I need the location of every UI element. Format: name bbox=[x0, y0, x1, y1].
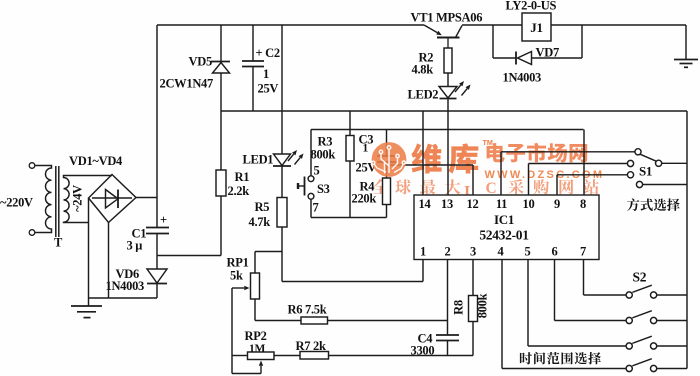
label C1 bbox=[132, 227, 147, 241]
svg-text:LED2: LED2 bbox=[408, 88, 439, 102]
svg-text:S2: S2 bbox=[633, 270, 647, 285]
wire RP2 right to R8 bottom (R7 line) bbox=[274, 355, 473, 357]
svg-text:R5: R5 bbox=[255, 200, 270, 214]
wire wiper bottom horizontal bbox=[232, 373, 261, 375]
svg-text:4.7k: 4.7k bbox=[249, 215, 271, 229]
svg-text:J1: J1 bbox=[530, 20, 542, 35]
svg-text:R3: R3 bbox=[318, 135, 333, 149]
switch S2 pole 2 bbox=[626, 311, 657, 324]
wire R5 branch to RP1 top bbox=[255, 251, 282, 253]
wire pin 5 to S2 row 3 bbox=[528, 345, 626, 347]
wire LED1 to R5 bbox=[281, 166, 283, 198]
label IC1 pin 5 bbox=[525, 245, 531, 259]
svg-text:7: 7 bbox=[580, 245, 586, 259]
wire VD6 to bottom corner bbox=[156, 284, 158, 299]
resistor R3 bbox=[346, 136, 354, 162]
svg-text:1: 1 bbox=[420, 245, 426, 259]
label IC1 pin 14 bbox=[419, 197, 432, 211]
label IC1 pin 1 bbox=[420, 245, 426, 259]
wire rail to VD7 left bbox=[492, 25, 494, 58]
label RP2 value 1M bbox=[249, 343, 265, 355]
label IC1 bbox=[494, 212, 514, 227]
label C4 value 3300 bbox=[411, 344, 435, 358]
svg-text:13: 13 bbox=[441, 197, 453, 211]
wire IC pin 7 lead bbox=[583, 260, 585, 296]
svg-text:4.8k: 4.8k bbox=[412, 63, 434, 77]
label R2 bbox=[419, 51, 434, 65]
wire RP1 wiper down bbox=[231, 288, 233, 374]
switch S2 pole 4 bbox=[626, 359, 657, 372]
wire S2 pole 1 to bus bbox=[657, 294, 687, 296]
svg-text:~220V: ~220V bbox=[0, 196, 33, 210]
label S3 bbox=[317, 182, 330, 196]
wire pin1 horizontal to R5 node bbox=[282, 281, 423, 283]
label R3 value 800k bbox=[311, 148, 336, 162]
label T bbox=[54, 236, 63, 250]
svg-text:R8: R8 bbox=[452, 300, 466, 315]
diode VD6 bbox=[147, 269, 167, 284]
svg-text:S1: S1 bbox=[639, 164, 652, 179]
svg-text:9: 9 bbox=[554, 197, 560, 211]
wire top rail to VD5 bbox=[220, 25, 222, 62]
svg-text:3: 3 bbox=[470, 245, 476, 259]
wire mid rail to R1 bbox=[220, 111, 222, 170]
label VD7 bbox=[536, 46, 559, 60]
label R2 value 4.8k bbox=[412, 63, 434, 77]
switch S2 pole 1 bbox=[626, 285, 657, 298]
wire RP1 bottom lead bbox=[254, 299, 256, 321]
ground (left, bridge/filter return) bbox=[71, 298, 102, 318]
label R4 bbox=[360, 180, 376, 194]
transformer T with primary and secondary windings bbox=[29, 163, 112, 237]
wire R5 down to pin1 node bbox=[281, 227, 283, 282]
label mode-select (fang shi xuan ze) bbox=[627, 198, 680, 211]
label time-range-select (shi jian fan wei xuan ze) bbox=[520, 352, 601, 364]
label IC1 pin 13 bbox=[441, 197, 453, 211]
svg-text:+: + bbox=[160, 213, 167, 227]
svg-text:6: 6 bbox=[552, 245, 558, 259]
capacitor C1 bbox=[146, 228, 169, 234]
resistor R4 bbox=[383, 178, 391, 205]
label RP1 value 5k bbox=[230, 269, 243, 283]
label C3 voltage 25V bbox=[356, 161, 377, 175]
wire top rail right segment bbox=[551, 24, 686, 26]
wire top rail middle segment bbox=[462, 24, 522, 26]
wire S2 pole 4 to bus bbox=[657, 368, 687, 370]
svg-text:1: 1 bbox=[363, 143, 369, 155]
potentiometer RP2 wiper arrow bbox=[259, 361, 263, 374]
label VD6 type 1N4003 bbox=[106, 279, 145, 293]
wire IC pin 3 lead to R8 bbox=[472, 260, 474, 296]
svg-text:+ C2: + C2 bbox=[256, 46, 280, 60]
diode VD7 bbox=[516, 52, 532, 65]
resistor R5 bbox=[277, 198, 287, 228]
svg-text:R7 2k: R7 2k bbox=[296, 339, 326, 353]
LED2 bbox=[439, 81, 471, 99]
label C3 value 1 bbox=[363, 143, 369, 155]
transistor VT1 bbox=[424, 25, 462, 48]
wire C4 to bottom line bbox=[447, 341, 449, 356]
label RP1 bbox=[227, 256, 249, 270]
wire C3/R4 node to pin12 bbox=[387, 164, 474, 166]
resistor R8 bbox=[469, 296, 478, 322]
label ~24V (rotated) bbox=[71, 185, 85, 212]
wire pin 4 to S2 row 4 bbox=[502, 368, 626, 370]
svg-text:3 μ: 3 μ bbox=[127, 239, 143, 253]
svg-text:10: 10 bbox=[523, 197, 535, 211]
potentiometer RP2 body bbox=[248, 352, 275, 360]
ground (right, relay return) bbox=[674, 60, 698, 68]
svg-text:R6 7.5k: R6 7.5k bbox=[288, 303, 327, 317]
potentiometer RP1 wiper arrow bbox=[232, 286, 250, 290]
wire LED2 to IC pin 13 column bbox=[447, 99, 449, 196]
switch S2 pole 3 bbox=[626, 336, 657, 349]
svg-text:VD1~VD4: VD1~VD4 bbox=[69, 154, 123, 168]
wire R3 bottom lead bbox=[349, 161, 351, 218]
label IC1 pin 8 bbox=[580, 197, 586, 211]
label RP2 bbox=[245, 329, 267, 343]
wire mid supply rail bbox=[221, 110, 687, 112]
label IC1 pin 7 bbox=[580, 245, 586, 259]
svg-text:5: 5 bbox=[314, 164, 320, 178]
svg-text:TM: TM bbox=[483, 138, 493, 147]
label R8 (rotated) bbox=[452, 300, 466, 315]
svg-text:RP2: RP2 bbox=[245, 329, 267, 343]
wire pin 6 to S2 row 2 bbox=[555, 320, 627, 322]
wire VD7 right lead bbox=[532, 57, 583, 59]
wire rail to right ground bbox=[685, 25, 687, 59]
label C3 bbox=[359, 133, 374, 147]
label IC1 pin 9 bbox=[554, 197, 560, 211]
wire pin 11 to S1 bbox=[501, 151, 635, 153]
svg-text:T: T bbox=[54, 236, 63, 250]
svg-text:14: 14 bbox=[419, 197, 432, 211]
label IC1 pin 12 bbox=[467, 197, 479, 211]
wire bridge right vertex to left edge bbox=[136, 197, 157, 199]
svg-text:2CW1N47: 2CW1N47 bbox=[160, 77, 214, 91]
label R4 value 220k bbox=[352, 192, 377, 206]
svg-text:1M: 1M bbox=[249, 343, 265, 355]
wire RP1 top lead bbox=[254, 252, 256, 274]
wire top rail to C2 bbox=[252, 25, 254, 61]
wire right bus vertical bbox=[686, 111, 688, 369]
svg-text:4: 4 bbox=[498, 245, 505, 259]
label pin 7 at S3 bbox=[313, 201, 319, 215]
wire mid rail to LED1 bbox=[281, 111, 283, 154]
svg-text:LED1: LED1 bbox=[243, 153, 274, 167]
label LED1 bbox=[243, 153, 274, 167]
resistor R2 bbox=[444, 48, 452, 73]
wire IC pin 6 lead bbox=[554, 260, 556, 321]
svg-text:VD5: VD5 bbox=[189, 55, 212, 69]
label S2 bbox=[633, 270, 647, 285]
svg-text:RP1: RP1 bbox=[227, 256, 249, 270]
wire IC pin 9 lead bbox=[556, 175, 558, 195]
label C1 plus sign bbox=[160, 213, 167, 227]
label R1 bbox=[235, 170, 250, 184]
zener diode VD5 bbox=[211, 62, 230, 74]
svg-text:1: 1 bbox=[263, 67, 269, 81]
wire RP1 bottom to pin2 node (R6 line) bbox=[255, 320, 448, 322]
svg-text:52432-01: 52432-01 bbox=[479, 228, 529, 243]
label C2 voltage 25V bbox=[258, 82, 279, 96]
capacitor C2 bbox=[242, 61, 264, 67]
wire IC pin 12 lead bbox=[472, 165, 474, 195]
wire IC pin 11 lead bbox=[500, 152, 502, 195]
svg-text:7: 7 bbox=[313, 201, 319, 215]
op-amp/timer IC1 body bbox=[414, 195, 599, 260]
label IC1 pin 3 bbox=[470, 245, 476, 259]
selector switch S1 bbox=[627, 149, 661, 188]
wire S2 pole 3 to bus bbox=[657, 345, 687, 347]
wire node to C3 bbox=[386, 130, 388, 157]
label C1 value 3u bbox=[127, 239, 143, 253]
svg-text:LY2-0-US: LY2-0-US bbox=[506, 0, 557, 13]
relay J1 bbox=[522, 13, 551, 41]
wire C3 to R4 bbox=[386, 162, 388, 178]
label VD7 type 1N4003 bbox=[503, 71, 542, 85]
svg-text:800k: 800k bbox=[311, 148, 336, 162]
label IC1 pin 6 bbox=[552, 245, 558, 259]
resistor R1 bbox=[216, 170, 226, 196]
wire R4 bottom lead bbox=[386, 205, 388, 218]
label VD6 bbox=[116, 267, 139, 281]
wire R8 bottom lead bbox=[472, 322, 474, 356]
svg-text:8: 8 bbox=[580, 197, 586, 211]
svg-text:~24V: ~24V bbox=[71, 185, 85, 212]
wire R1 down bbox=[220, 196, 222, 256]
wire bridge bottom vertex down bbox=[108, 223, 110, 299]
wire bridge left vertex down bbox=[88, 198, 90, 298]
wire long node to S3 top bbox=[310, 130, 312, 176]
label IC1 pin 4 bbox=[498, 245, 505, 259]
pushbutton S3 bbox=[298, 176, 314, 199]
label C4 bbox=[418, 332, 434, 346]
label J1 bbox=[530, 20, 542, 35]
wire C1 to VD6 bbox=[156, 234, 158, 270]
label VT1 MPSA06 bbox=[411, 11, 483, 25]
wire IC pin 10 lead bbox=[528, 164, 530, 196]
wire R1 to C1/VD6 node bbox=[157, 255, 221, 257]
label C2 value 1 bbox=[263, 67, 269, 81]
svg-text:S3: S3 bbox=[317, 182, 330, 196]
label VD5 bbox=[189, 55, 212, 69]
svg-text:12: 12 bbox=[467, 197, 479, 211]
svg-text:1N4003: 1N4003 bbox=[503, 71, 542, 85]
wire S1 common to bus bbox=[662, 162, 687, 164]
label LY2-0-US bbox=[506, 0, 557, 13]
svg-text:25V: 25V bbox=[258, 82, 279, 96]
wire node S3/R3/C3/pin8 horizontal bbox=[311, 129, 584, 131]
svg-text:VT1 MPSA06: VT1 MPSA06 bbox=[411, 11, 483, 25]
wire IC pin 5 lead bbox=[527, 260, 529, 347]
wire top rail left segment bbox=[157, 24, 424, 26]
label C2 with plus bbox=[256, 46, 280, 60]
wire S3 bottom lead bbox=[310, 199, 312, 217]
svg-text:220k: 220k bbox=[352, 192, 377, 206]
wire S1 bottom contact to bus bbox=[643, 184, 687, 186]
label R1 value 2.2k bbox=[228, 184, 250, 198]
label IC1 type 52432-01 bbox=[479, 228, 529, 243]
label LED2 bbox=[408, 88, 439, 102]
wire VD7 left lead bbox=[493, 57, 516, 59]
potentiometer RP1 body bbox=[251, 273, 260, 299]
resistor R7 bbox=[300, 352, 329, 360]
label VD1~VD4 bbox=[69, 154, 123, 168]
label R6 with value 7.5k bbox=[288, 303, 327, 317]
label R7 with value 2k bbox=[296, 339, 326, 353]
svg-text:11: 11 bbox=[496, 197, 507, 211]
wire S2 pole 2 to bus bbox=[657, 320, 687, 322]
label R3 bbox=[318, 135, 333, 149]
watermark logo and text (decorative) bbox=[373, 138, 605, 201]
wire pin 7 to S2 row 1 bbox=[584, 294, 627, 296]
label IC1 pin 2 bbox=[445, 245, 451, 259]
svg-text:5: 5 bbox=[525, 245, 531, 259]
wire mid rail to R3 top node bbox=[349, 111, 351, 136]
svg-text:2: 2 bbox=[445, 245, 451, 259]
svg-text:IC1: IC1 bbox=[494, 212, 514, 227]
capacitor C4 bbox=[436, 335, 459, 341]
wire IC pin 4 lead bbox=[501, 260, 503, 369]
bridge rectifier VD1~VD4 bbox=[89, 175, 137, 223]
label VD5 type 2CW1N47 bbox=[160, 77, 214, 91]
label pin 5 at S3 bbox=[314, 164, 320, 178]
wire IC pin 2 lead to C4 bbox=[447, 260, 449, 336]
wire VD5 to mid rail bbox=[220, 73, 222, 111]
wire VD7 right up to rail bbox=[581, 25, 583, 58]
svg-text:5k: 5k bbox=[230, 269, 243, 283]
label R8 value 800k (rotated) bbox=[476, 293, 490, 318]
watermark logo disc (overlay) bbox=[372, 142, 407, 177]
svg-text:1N4003: 1N4003 bbox=[106, 279, 145, 293]
wire left edge vertical bbox=[156, 25, 158, 228]
wire top rail to mid rail at x282 bbox=[281, 25, 283, 111]
svg-text:3300: 3300 bbox=[411, 344, 435, 358]
wire pin 10 to S1 bbox=[529, 163, 628, 165]
wire IC pin 8 lead bbox=[583, 130, 585, 196]
wire pin 9 to S1 bbox=[557, 174, 627, 176]
LED1 bbox=[273, 150, 304, 166]
svg-text:800k: 800k bbox=[476, 293, 490, 318]
label IC1 pin 10 bbox=[523, 197, 535, 211]
label R5 bbox=[255, 200, 270, 214]
label ~220V bbox=[0, 196, 33, 210]
svg-text:R1: R1 bbox=[235, 170, 250, 184]
wire IC pin 1 lead bbox=[422, 260, 424, 282]
wire R2 to LED2 bbox=[447, 73, 449, 87]
wire C2 to mid rail bbox=[252, 67, 254, 112]
wire RP2 left lead bbox=[232, 355, 248, 357]
label R5 value 4.7k bbox=[249, 215, 271, 229]
svg-text:2.2k: 2.2k bbox=[228, 184, 250, 198]
label S1 bbox=[639, 164, 652, 179]
wire IC pin 14 to mid rail bbox=[422, 111, 424, 195]
label IC1 pin 11 bbox=[496, 197, 507, 211]
wire bottom left horizontal bbox=[89, 297, 158, 299]
capacitor C3 bbox=[377, 156, 396, 162]
wire S3/R3/R4 bottom node bbox=[311, 217, 387, 219]
resistor R6 bbox=[301, 317, 328, 324]
